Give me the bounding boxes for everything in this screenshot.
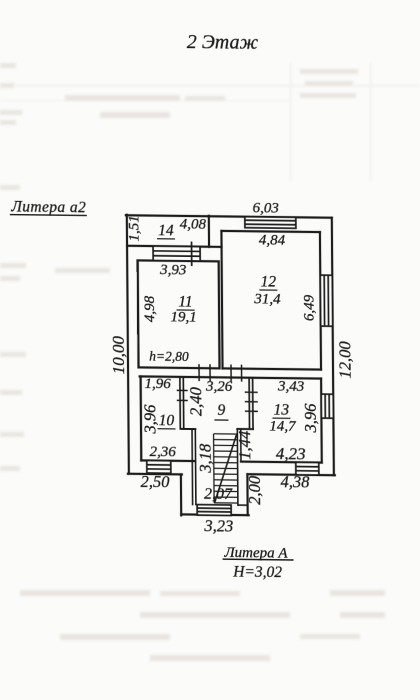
svg-text:3,93: 3,93 [159, 262, 186, 278]
svg-text:2,07: 2,07 [204, 486, 233, 503]
svg-text:3,26: 3,26 [205, 379, 233, 395]
room 10 bottom wall [141, 459, 195, 462]
room 9 bottom-right jog [237, 428, 253, 430]
room 12 left wall [221, 231, 222, 369]
door ticks on wall between rooms 10 and 9 [177, 390, 188, 400]
exterior top wall [126, 215, 332, 217]
svg-text:1,51: 1,51 [126, 215, 142, 241]
stair shaft left wall (double) [191, 429, 194, 505]
room 14 right wall [208, 216, 210, 247]
svg-text:19,1: 19,1 [170, 309, 196, 325]
exterior right wall outer [332, 218, 334, 476]
wall between room 10 and room 9 (double) [179, 377, 181, 429]
room 12 right interior wall [320, 232, 321, 370]
svg-text:4,98: 4,98 [142, 295, 158, 322]
ticks on middle band over stair opening [199, 364, 242, 382]
step wall between room 14 and room 12 [209, 246, 222, 248]
stair run diagonal [214, 434, 237, 503]
exterior bottom right wall [247, 474, 335, 475]
svg-text:2,40: 2,40 [186, 386, 205, 416]
svg-text:Литера а2: Литера а2 [10, 198, 86, 216]
door ticks on wall between rooms 9 and 13 [245, 392, 258, 411]
svg-text:12,00: 12,00 [335, 340, 354, 378]
svg-text:3,18: 3,18 [196, 443, 215, 474]
room 13 bottom wall [241, 461, 322, 464]
svg-text:9: 9 [217, 402, 225, 419]
window on right wall of room 13 [321, 394, 333, 418]
exterior bottom left wall [128, 473, 182, 476]
stair bay left wall [180, 474, 183, 515]
svg-text:3,23: 3,23 [203, 516, 233, 535]
window under room 13 [296, 462, 319, 475]
svg-text:4,08: 4,08 [180, 216, 207, 232]
window mullion tick [191, 242, 193, 266]
svg-text:2,36: 2,36 [150, 444, 177, 460]
svg-text:6,03: 6,03 [253, 200, 279, 216]
room 13 right wall [320, 379, 323, 463]
stair bay bottom wall [181, 513, 249, 516]
svg-text:10,00: 10,00 [109, 335, 128, 374]
staircase treads [214, 434, 238, 503]
room 10 left wall [139, 376, 142, 460]
room 9 bottom-left jog [182, 428, 196, 430]
svg-text:1,96: 1,96 [144, 376, 171, 392]
window on right wall of room 12 [320, 275, 332, 326]
svg-text:4,23: 4,23 [276, 444, 306, 463]
exterior left wall [127, 215, 129, 474]
svg-text:4,38: 4,38 [280, 472, 310, 491]
svg-text:2,00: 2,00 [245, 475, 264, 505]
svg-text:3,96: 3,96 [301, 403, 320, 434]
svg-text:Н=3,02: Н=3,02 [232, 564, 282, 582]
svg-text:1,44: 1,44 [235, 431, 254, 460]
stair shaft bottom line [238, 504, 248, 506]
svg-text:6,49: 6,49 [301, 294, 317, 321]
svg-text:2 Этаж: 2 Этаж [187, 31, 259, 54]
room 11 box [138, 260, 220, 368]
svg-text:14: 14 [158, 222, 174, 239]
svg-text:4,84: 4,84 [259, 232, 286, 248]
stair shaft right wall (double) [236, 429, 239, 505]
svg-text:13: 13 [274, 402, 290, 419]
room 12 top interior wall [221, 231, 320, 232]
room 14 bottom wall [127, 245, 209, 248]
svg-text:12: 12 [261, 273, 277, 290]
middle band lower line (tops of rooms 10/9/13) [140, 376, 322, 378]
window at stair bay bottom [197, 505, 231, 516]
room 12 bottom wall [223, 368, 322, 369]
svg-text:11: 11 [178, 293, 192, 310]
window between room 14 and room 11 [153, 241, 200, 266]
svg-text:14,7: 14,7 [269, 418, 297, 434]
room 9 right wall / room 13 left wall (double) [248, 378, 250, 429]
svg-text:h=2,80: h=2,80 [149, 349, 189, 364]
stair bay right wall [246, 474, 249, 515]
svg-text:10: 10 [159, 412, 175, 429]
window on top wall of room 12 [245, 217, 296, 229]
svg-text:3,43: 3,43 [277, 379, 304, 395]
svg-text:31,4: 31,4 [253, 291, 281, 307]
svg-text:2,50: 2,50 [140, 472, 170, 491]
svg-text:3,96: 3,96 [140, 404, 159, 435]
window under room 10 [147, 460, 171, 473]
